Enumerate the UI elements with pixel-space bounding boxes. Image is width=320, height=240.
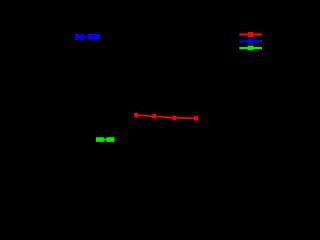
legend green line (239, 47, 262, 49)
blue series marker 2 (81, 34, 85, 40)
blue series marker cluster (88, 34, 100, 40)
legend red line (239, 33, 262, 35)
green series line (97, 139, 114, 141)
red series marker 3 (173, 116, 177, 121)
blue series line (76, 36, 99, 38)
legend green marker (248, 46, 254, 51)
legend red marker (248, 32, 253, 37)
green series marker cluster 2 (106, 137, 114, 142)
blue series marker 1 (75, 34, 79, 40)
red series marker 4 (194, 116, 198, 121)
red series line (136, 115, 196, 118)
legend blue line (239, 40, 262, 42)
legend blue marker (248, 39, 253, 44)
red series marker 2 (152, 114, 156, 119)
red series marker 1 (134, 113, 138, 118)
green series marker cluster 1 (96, 137, 104, 142)
